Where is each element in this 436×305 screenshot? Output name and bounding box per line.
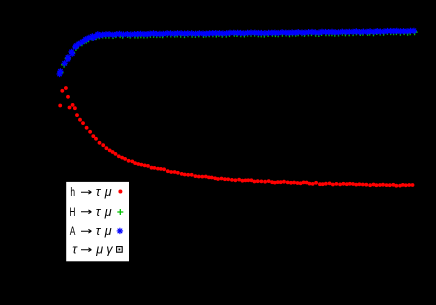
svg-text:μ: μ bbox=[104, 205, 112, 219]
svg-text:H: H bbox=[69, 207, 75, 220]
svg-text:A: A bbox=[70, 226, 76, 239]
svg-text:μ: μ bbox=[104, 185, 112, 199]
svg-text:μ: μ bbox=[95, 243, 103, 257]
svg-text:γ: γ bbox=[106, 243, 113, 257]
svg-text:μ: μ bbox=[104, 224, 112, 238]
svg-text:h: h bbox=[70, 187, 75, 200]
